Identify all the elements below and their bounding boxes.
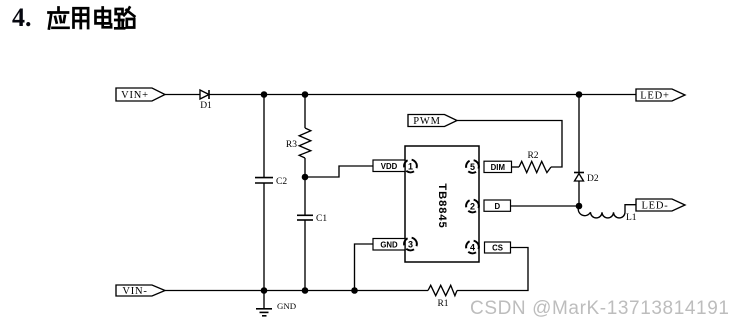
wire R3 to junction — [304, 158, 306, 177]
node PWM connector — [408, 115, 457, 127]
svg-text:1: 1 — [408, 161, 413, 171]
svg-text:LED-: LED- — [641, 201, 668, 212]
wire DIM to R2 — [512, 166, 520, 168]
pin box D — [484, 200, 511, 211]
svg-text:5: 5 — [470, 162, 475, 172]
wire bottom rail left of R1 — [165, 290, 428, 292]
resistor R1 — [428, 285, 457, 295]
node VIN- connector — [116, 285, 165, 296]
junction bottom rail / C1 — [302, 287, 309, 294]
svg-text:GND: GND — [277, 301, 296, 311]
diode D2 — [574, 173, 584, 182]
wire VIN+ to D1 — [165, 94, 200, 96]
wire D2 lower — [578, 181, 580, 206]
char 应 — [49, 8, 69, 29]
svg-text:PWM: PWM — [413, 116, 441, 127]
node VIN+ connector — [116, 88, 165, 101]
wire bottom rail right of R1 up to CS — [457, 248, 528, 291]
junction top rail / C2 — [261, 91, 268, 98]
svg-text:R2: R2 — [527, 151, 538, 161]
svg-text:VIN-: VIN- — [122, 286, 147, 297]
char 电 — [96, 8, 112, 28]
wire C2 branch upper — [263, 95, 265, 178]
svg-text:C1: C1 — [316, 214, 327, 224]
wire C2 branch lower — [263, 183, 265, 291]
svg-text:D: D — [494, 202, 500, 211]
junction top rail / R3 — [302, 91, 309, 98]
wire C1 upper — [304, 177, 306, 215]
junction top rail / D2 — [576, 91, 583, 98]
char 用 — [74, 8, 89, 28]
wire top rail D1 to LED+ — [209, 94, 636, 96]
pin box CS — [485, 242, 511, 253]
pin 2 — [464, 197, 482, 215]
svg-text:R1: R1 — [437, 299, 448, 309]
junction bottom rail / GND pin wire — [351, 287, 358, 294]
char 路 — [115, 8, 134, 29]
svg-text:VDD: VDD — [381, 162, 398, 171]
capacitor C1 — [297, 215, 313, 220]
pin 3 — [402, 235, 420, 253]
pin 1 — [402, 157, 420, 175]
wire C1 lower — [304, 220, 306, 291]
pin box VDD — [373, 160, 405, 172]
pin 5 — [464, 158, 482, 176]
svg-text:2: 2 — [470, 201, 475, 211]
svg-text:C2: C2 — [276, 177, 287, 187]
wire GND pin to bottom rail — [355, 244, 374, 291]
watermark — [470, 298, 730, 320]
wire junction to VDD pin — [305, 166, 373, 177]
junction bottom rail / C2 / GND — [261, 287, 268, 294]
ground — [256, 291, 272, 316]
diode D1 — [200, 90, 209, 99]
section number 4. — [12, 3, 32, 33]
svg-text:GND: GND — [380, 240, 398, 249]
svg-text:L1: L1 — [626, 213, 637, 223]
junction D / D2 / L1 — [576, 203, 583, 210]
capacitor C2 — [255, 178, 273, 183]
resistor R2 — [519, 161, 551, 172]
node LED- connector — [636, 199, 685, 211]
resistor R3 — [299, 128, 311, 158]
svg-text:LED+: LED+ — [640, 91, 670, 102]
pin 4 — [464, 238, 482, 256]
node LED+ connector — [636, 89, 685, 101]
svg-text:R3: R3 — [286, 140, 297, 150]
IC U1 TB8845 body — [405, 146, 479, 262]
svg-text:DIM: DIM — [491, 163, 505, 172]
svg-text:D2: D2 — [587, 174, 599, 184]
wire PWM to R2 — [457, 121, 562, 168]
wire D pin to junction — [511, 205, 580, 207]
wire R3 branch upper — [304, 95, 306, 129]
svg-text:4: 4 — [470, 242, 475, 252]
svg-text:TB8845: TB8845 — [436, 183, 448, 228]
svg-text:D1: D1 — [200, 101, 212, 111]
junction R3/C1/VDD — [302, 174, 309, 181]
inductor L1 — [578, 205, 636, 218]
pin box GND — [373, 239, 405, 251]
svg-text:CS: CS — [492, 244, 503, 253]
svg-text:VIN+: VIN+ — [121, 90, 149, 101]
wire D2 upper — [578, 95, 580, 173]
svg-text:3: 3 — [408, 239, 413, 249]
pin box DIM — [484, 161, 512, 172]
